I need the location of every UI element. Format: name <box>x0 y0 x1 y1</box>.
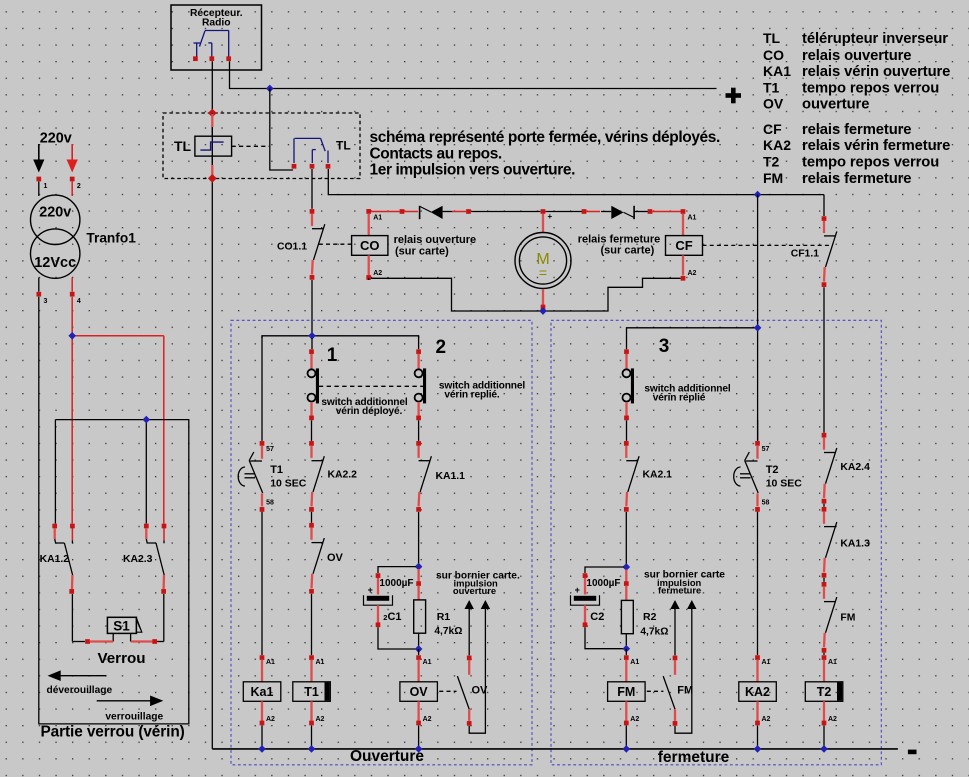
impulse arrow fermeture right loop <box>675 600 697 733</box>
svg-text:ouverture: ouverture <box>453 585 496 596</box>
relay coil T2 <box>805 655 843 725</box>
svg-text:KA1: KA1 <box>763 63 791 79</box>
wire KA1.3 to FM contact <box>823 578 825 582</box>
resistor R1 <box>414 569 426 647</box>
supply arrow neutral red <box>67 144 78 173</box>
svg-text:A2: A2 <box>688 270 697 277</box>
svg-text:2: 2 <box>436 337 447 358</box>
junction node C2 top <box>622 563 630 571</box>
svg-text:verrouillage: verrouillage <box>105 712 163 723</box>
label CO1.1 <box>277 242 307 253</box>
label KA1.3 <box>840 539 870 550</box>
wire transformer 12V red to verrou contacts <box>72 297 164 524</box>
impulse arrow ouverture left <box>465 600 474 655</box>
label 1 <box>327 345 338 366</box>
svg-text:déverouillage: déverouillage <box>47 685 113 696</box>
TL changeover contact <box>292 138 331 168</box>
svg-text:Verrou: Verrou <box>97 650 145 667</box>
label KA2.2 <box>328 469 358 480</box>
TL label left <box>174 138 192 154</box>
label FM aux <box>677 685 693 697</box>
svg-text:TL: TL <box>336 139 351 153</box>
wire TL middle terminal down to CO1.1 <box>311 169 313 209</box>
legend text block <box>763 30 950 187</box>
svg-text:CF: CF <box>675 238 692 253</box>
wire CO A1 to diode D1 <box>371 209 418 214</box>
contact KA2.4 <box>822 433 837 504</box>
svg-text:TL: TL <box>763 30 781 46</box>
svg-text:relais ouverture: relais ouverture <box>802 48 911 64</box>
aux contact OV <box>457 656 471 726</box>
svg-text:télérupteur inverseur: télérupteur inverseur <box>802 31 948 47</box>
label Partie verrou <box>41 723 185 740</box>
svg-text:A1: A1 <box>373 215 382 222</box>
svg-text:TL: TL <box>174 138 192 154</box>
contact CO1.1 <box>310 209 325 280</box>
label switch additionnel verin replie fermeture <box>644 384 730 404</box>
svg-text:KA1.2: KA1.2 <box>40 554 70 565</box>
svg-text:4,7kΩ: 4,7kΩ <box>434 626 462 637</box>
junction node R2 bottom <box>622 645 630 653</box>
wire OV contact to T1 coil <box>311 594 313 655</box>
label verrouillage <box>105 712 163 723</box>
wire transformer return and partie verrou outline <box>39 297 189 724</box>
svg-text:Radio: Radio <box>202 18 231 29</box>
TL dashed enclosure <box>163 113 360 179</box>
svg-text:CO1.1: CO1.1 <box>277 242 307 253</box>
svg-text:57: 57 <box>266 446 274 453</box>
contact FM series <box>822 582 837 653</box>
timer contact T2 <box>734 420 760 512</box>
svg-text:T2: T2 <box>817 685 832 699</box>
labels T2 10 SEC 57 58 <box>762 446 803 506</box>
fermeture dashed enclosure <box>551 320 881 765</box>
label 3 <box>659 336 670 357</box>
svg-text:A2: A2 <box>373 270 382 277</box>
svg-text:1000µF: 1000µF <box>379 578 413 589</box>
svg-text:220v: 220v <box>40 131 72 147</box>
impulse arrow fermeture left <box>670 600 679 655</box>
mechanical link CF coil to CF1.1 <box>703 244 831 246</box>
impulse arrow ouverture right loop <box>469 600 490 733</box>
svg-text:A1: A1 <box>630 659 639 666</box>
wire capacitor C2 bottom loop <box>585 627 624 648</box>
switch 1 <box>308 338 320 420</box>
svg-text:R1: R1 <box>437 611 451 623</box>
Récepteur Radio box <box>171 5 262 70</box>
svg-text:A1: A1 <box>828 659 837 666</box>
wire KA1.1 down to R1 <box>418 512 420 564</box>
fermeture top distribution wire <box>627 195 758 441</box>
relay coil Ka1 <box>243 655 280 725</box>
transformer Tranfo1 <box>31 177 81 305</box>
junction node fermeture feed <box>754 324 762 332</box>
label Tranfo1 <box>86 230 136 245</box>
svg-text:10 SEC: 10 SEC <box>766 477 803 489</box>
wire FM contact to T2 coil <box>823 653 825 655</box>
svg-text:4,7kΩ: 4,7kΩ <box>640 626 668 637</box>
svg-text:+: + <box>575 585 580 595</box>
svg-text:fermeture: fermeture <box>658 749 730 766</box>
capacitor C1 1000uF <box>364 573 414 627</box>
switch 2 <box>415 336 427 420</box>
svg-text:Partie verrou (vérin): Partie verrou (vérin) <box>41 723 185 740</box>
svg-text:4: 4 <box>77 298 81 305</box>
wire junction to OV coil <box>418 649 420 655</box>
svg-text:FM: FM <box>677 685 693 697</box>
label FM series contact <box>840 612 855 623</box>
svg-text:1er impulsion vers ouverture.: 1er impulsion vers ouverture. <box>370 162 576 179</box>
svg-text:3: 3 <box>659 336 670 357</box>
svg-text:vérin déployé.: vérin déployé. <box>336 406 403 417</box>
svg-text:OV: OV <box>410 685 429 699</box>
plus symbol <box>726 88 742 104</box>
wire T2 A2 to rail <box>823 726 825 749</box>
svg-text:(sur carte): (sur carte) <box>601 245 655 257</box>
TL latching coil <box>195 109 232 183</box>
mechanical link OV coil to aux contact <box>439 690 456 692</box>
svg-text:A2: A2 <box>630 716 639 723</box>
junction node verrou top wire <box>142 416 150 424</box>
wire KA1.2 to S1 <box>72 594 85 642</box>
contact OV in series <box>309 523 324 594</box>
svg-text:KA1.3: KA1.3 <box>840 539 870 550</box>
TL label right <box>336 139 351 153</box>
label OV contact <box>327 552 344 564</box>
relay coil FM <box>608 655 646 725</box>
note text schema <box>370 129 720 179</box>
labels R2 value <box>640 611 668 637</box>
svg-text:KA2: KA2 <box>763 137 791 153</box>
wire motor top to diode D2 <box>546 209 601 214</box>
svg-text:S1: S1 <box>113 619 130 634</box>
wire switch 1 to KA2.2 <box>311 420 313 441</box>
svg-text:1: 1 <box>44 183 48 190</box>
label sur bornier carte impulsion ouverture <box>436 570 520 596</box>
labels R1 value <box>434 611 462 637</box>
junction node 12V red <box>68 332 76 340</box>
wire switch 2 to KA1.1 <box>418 420 420 441</box>
wire junction down to TL contact common <box>270 89 293 171</box>
svg-text:FM: FM <box>840 612 855 623</box>
label sur bornier carte impulsion fermeture <box>644 569 725 595</box>
svg-text:T2: T2 <box>763 154 780 170</box>
svg-text:OV: OV <box>763 96 784 112</box>
svg-text:vérin replié.: vérin replié. <box>444 390 500 401</box>
contact CF1.1 <box>822 195 837 287</box>
limit switch S1 <box>85 617 157 644</box>
junction node C1 top <box>415 563 423 571</box>
relay coil CO <box>352 209 388 280</box>
negative rail bottom <box>212 748 898 750</box>
svg-text:FM: FM <box>763 170 783 186</box>
ouverture dashed enclosure <box>231 320 532 765</box>
svg-text:CO: CO <box>763 47 784 63</box>
svg-text:KA1.1: KA1.1 <box>436 471 466 482</box>
svg-text:+: + <box>368 585 373 595</box>
relay coil T1 <box>293 655 331 725</box>
svg-text:KA2.4: KA2.4 <box>840 462 870 473</box>
svg-text:T1: T1 <box>763 80 780 96</box>
svg-text:C2: C2 <box>590 611 604 623</box>
wire TL contact right to positive distribution <box>328 169 824 195</box>
svg-text:CO: CO <box>360 238 380 253</box>
svg-text:tempo repos verrou: tempo repos verrou <box>802 155 939 171</box>
label 220v supply <box>40 131 72 147</box>
label 2 <box>436 337 447 358</box>
wire OV A2 to rail <box>418 726 420 749</box>
relay coil CF <box>666 209 703 281</box>
wire diode D2 to CF A1 <box>634 209 681 214</box>
wire switch 3 to KA2.1 <box>626 420 628 441</box>
wire KA2.4 to KA1.3 <box>823 504 825 507</box>
resistor R2 <box>621 570 633 647</box>
relay coil KA2 <box>739 655 777 725</box>
timer contact T1 <box>238 441 264 512</box>
label KA2.4 <box>840 462 870 473</box>
mechanical link FM coil to aux contact <box>647 690 664 692</box>
svg-text:Tranfo1: Tranfo1 <box>86 230 136 245</box>
supply arrow phase <box>33 144 44 173</box>
svg-text:A1: A1 <box>762 659 771 666</box>
svg-text:+: + <box>548 212 553 221</box>
svg-text:KA2.1: KA2.1 <box>643 469 673 480</box>
svg-text:FM: FM <box>617 685 635 699</box>
wire T1 A2 to rail <box>311 726 313 749</box>
wire junction to FM coil <box>625 649 627 655</box>
svg-text:R2: R2 <box>643 611 657 623</box>
mechanical link CO1.1 to CO coil <box>319 243 352 245</box>
label relais ouverture sur carte <box>394 234 477 257</box>
svg-text:A2: A2 <box>762 716 771 723</box>
label fermeture <box>658 749 730 766</box>
wire to capacitor C2 <box>585 567 624 573</box>
junction node R1 bottom <box>415 645 423 653</box>
wire capacitor C1 bottom loop <box>378 627 416 649</box>
wire KA2.3 to S1 <box>157 594 164 642</box>
svg-text:=: = <box>539 265 547 281</box>
svg-text:3: 3 <box>44 298 48 305</box>
receiver relay contact <box>193 31 231 62</box>
svg-text:Contacts au repos.: Contacts au repos. <box>370 145 502 162</box>
svg-text:58: 58 <box>266 500 274 507</box>
contact KA2.1 <box>624 441 639 512</box>
label relais fermeture sur carte <box>578 234 661 257</box>
svg-text:fermeture: fermeture <box>658 585 701 596</box>
svg-text:vérin replié: vérin replié <box>653 393 706 404</box>
svg-text:schéma représenté porte fermée: schéma représenté porte fermée, vérins d… <box>370 129 720 146</box>
svg-text:OV: OV <box>327 552 344 564</box>
svg-text:T2: T2 <box>766 464 779 476</box>
svg-text:58: 58 <box>762 500 770 507</box>
capacitor C2 1000uF <box>571 573 621 627</box>
wire T2 to KA2 coil <box>757 512 759 655</box>
label KA1.2 <box>40 554 70 565</box>
svg-text:KA2.2: KA2.2 <box>328 469 358 480</box>
mechanical link TL coil to TL contact <box>232 145 269 147</box>
wire Ka1 A2 to rail <box>261 726 263 749</box>
wire KA2.1 down to R2 <box>625 512 627 565</box>
svg-text:relais fermeture: relais fermeture <box>802 122 911 138</box>
labels T1 10 SEC 57 58 <box>266 446 307 506</box>
arrow verrouillage <box>97 696 164 707</box>
junction nodes on rail <box>258 745 828 753</box>
wire receiver right terminal to plus rail <box>230 61 717 88</box>
svg-text:A1: A1 <box>688 215 697 222</box>
mechanical link switch 1 to switch 2 <box>319 385 423 387</box>
wire diode D1 to motor <box>452 209 541 214</box>
wire T1 contact to Ka1 coil <box>261 512 263 655</box>
svg-text:Ouverture: Ouverture <box>350 748 424 765</box>
svg-text:A1: A1 <box>423 659 432 666</box>
wire CO A2 to motor minus and CF A2 <box>369 278 681 311</box>
junction node positive distribution <box>754 191 762 199</box>
svg-text:CF: CF <box>763 121 782 137</box>
svg-text:A2: A2 <box>316 716 325 723</box>
svg-text:10 SEC: 10 SEC <box>270 477 307 489</box>
diode D2 <box>601 206 634 220</box>
arrow deverouillage <box>48 670 107 681</box>
label Ouverture <box>350 748 424 765</box>
svg-text:1000µF: 1000µF <box>586 578 620 589</box>
contact KA2.2 <box>309 441 324 512</box>
svg-text:1: 1 <box>327 345 338 366</box>
diode D1 <box>420 206 452 220</box>
svg-text:A2: A2 <box>828 716 837 723</box>
svg-text:T1: T1 <box>270 464 283 476</box>
wire receiver middle terminal down negative rail <box>211 61 213 749</box>
svg-text:A2: A2 <box>423 716 432 723</box>
svg-text:A1: A1 <box>316 659 325 666</box>
svg-text:T1: T1 <box>304 685 319 699</box>
contact KA2.3 <box>144 524 166 594</box>
label KA1.1 <box>436 471 466 482</box>
svg-text:57: 57 <box>762 446 770 453</box>
wire to capacitor C1 <box>378 567 416 573</box>
contact KA1.2 <box>52 524 74 594</box>
contact KA1.3 <box>822 507 837 578</box>
svg-text:ouverture: ouverture <box>802 97 869 113</box>
svg-text:KA2: KA2 <box>745 685 770 699</box>
svg-text:relais vérin fermeture: relais vérin fermeture <box>802 138 950 154</box>
wire KA2.2 to OV contact <box>311 512 313 523</box>
svg-text:12Vcc: 12Vcc <box>34 255 76 271</box>
wire KA2 A2 to rail <box>757 726 759 749</box>
wire CO1.1 down into ouverture box <box>311 280 313 336</box>
svg-text:relais vérin ouverture: relais vérin ouverture <box>802 64 950 80</box>
svg-text:tempo repos verrou: tempo repos verrou <box>802 81 939 97</box>
label switch additionnel verin deploye <box>321 397 407 417</box>
label Verrou <box>97 650 145 667</box>
contact KA1.1 <box>416 441 431 512</box>
label CF1.1 <box>791 249 820 260</box>
label KA2.1 <box>643 469 673 480</box>
label deverouillage <box>47 685 113 696</box>
svg-text:CF1.1: CF1.1 <box>791 249 820 260</box>
wire CF1.1 down to fermeture box <box>823 287 825 433</box>
svg-text:Ka1: Ka1 <box>251 685 274 699</box>
junction node receiver feed <box>266 85 274 93</box>
aux contact FM <box>663 656 677 726</box>
ouverture top distribution wire <box>262 336 419 441</box>
label KA2.3 <box>123 554 153 565</box>
junction node switch feed <box>308 332 316 340</box>
switch 3 <box>623 349 635 420</box>
wire FM A2 to rail <box>625 726 627 749</box>
svg-text:KA2.3: KA2.3 <box>123 554 153 565</box>
svg-text:2C1: 2C1 <box>383 611 401 623</box>
svg-text:2: 2 <box>77 183 81 190</box>
svg-text:220v: 220v <box>39 205 71 221</box>
svg-text:A2: A2 <box>266 716 275 723</box>
label switch additionnel verin replie <box>439 381 525 401</box>
svg-text:(sur carte): (sur carte) <box>395 245 449 257</box>
svg-text:relais fermeture: relais fermeture <box>802 171 911 187</box>
label OV aux <box>472 685 489 697</box>
junction node motor minus <box>539 307 547 315</box>
minus symbol <box>908 750 917 755</box>
relay coil OV <box>400 655 438 725</box>
svg-text:A1: A1 <box>266 659 275 666</box>
motor M <box>515 209 571 309</box>
